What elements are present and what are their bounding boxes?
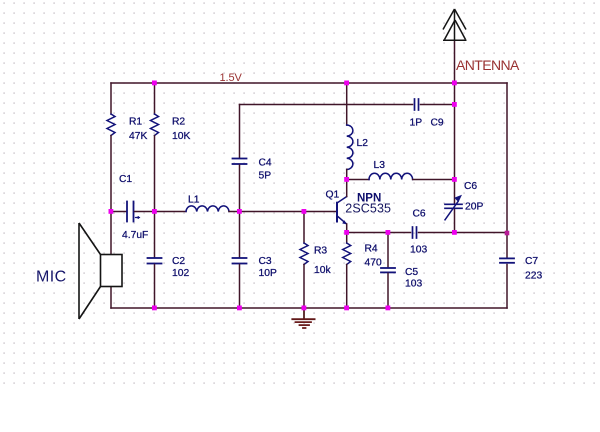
wire bottom rail <box>111 307 507 309</box>
resistor R3 <box>300 243 308 265</box>
wire emitter <box>346 224 348 233</box>
wire L2 top <box>346 83 348 125</box>
junction base / R3 top <box>302 209 307 214</box>
wire C9 right lead <box>421 104 455 106</box>
svg-text:103: 103 <box>410 245 427 256</box>
wire right vertical <box>506 83 508 233</box>
svg-text:Q1: Q1 <box>326 190 340 201</box>
capacitor C6 103 <box>412 227 414 238</box>
wire C1 to L1 <box>155 211 187 213</box>
junction L1 right / C4 bottom / C3 top <box>237 209 242 214</box>
ground <box>303 308 305 319</box>
svg-text:10k: 10k <box>314 265 331 276</box>
wire left vertical top (rail to R1) <box>110 83 112 114</box>
wire emitter row left <box>347 232 411 234</box>
junction R3 bottom / ground symbol <box>302 306 307 311</box>
wire C2 top lead <box>154 212 156 258</box>
wire R2 bottom <box>154 136 156 212</box>
wire C5 top lead <box>387 233 389 268</box>
junction C6 20P bottom / emitter row <box>452 230 457 235</box>
junction L2 bottom / L3 left / collector <box>344 177 349 182</box>
wire left vertical to MIC <box>110 212 112 255</box>
junction C9 right / antenna line <box>452 102 457 107</box>
junction antenna line / 1.5V rail <box>452 81 457 86</box>
junction C5 bottom / ground rail <box>386 306 391 311</box>
wire L1 right <box>229 211 304 213</box>
resistor R2 <box>151 114 159 136</box>
junction emitter / R4 top <box>344 230 349 235</box>
svg-text:C6: C6 <box>464 181 477 192</box>
wire C4 top corner <box>239 105 241 158</box>
svg-text:4.7uF: 4.7uF <box>122 230 148 241</box>
svg-text:L2: L2 <box>357 138 369 149</box>
wire C2 bottom lead <box>154 265 156 309</box>
wire C7 bottom lead <box>506 265 508 309</box>
capacitor C2 <box>148 257 162 259</box>
speaker MIC symbol <box>79 223 122 319</box>
wire emitter row right <box>419 232 508 234</box>
capacitor C4 <box>233 158 247 160</box>
svg-text:10K: 10K <box>172 131 190 142</box>
wire R4 top lead <box>346 233 348 244</box>
wire R3 top lead <box>303 212 305 244</box>
junction C1 left / R1 bottom / MIC top <box>109 209 114 214</box>
wire base lead <box>304 211 337 213</box>
capacitor C6 20P variable <box>445 203 462 205</box>
svg-text:103: 103 <box>405 279 422 290</box>
wire collector <box>346 180 348 197</box>
junction C3 bottom / ground rail <box>237 306 242 311</box>
wire L3 right lead <box>413 179 455 181</box>
wire mid row C4 to C9 <box>240 104 413 106</box>
wire R2 branch top <box>154 83 156 114</box>
svg-text:R3: R3 <box>314 246 327 257</box>
wire varcap top lead <box>454 180 456 204</box>
svg-text:L1: L1 <box>188 195 200 206</box>
wire antenna vertical <box>454 41 456 83</box>
junction C5 top <box>386 230 391 235</box>
antenna symbol <box>443 9 467 40</box>
wire MIC bottom to rail <box>110 287 112 309</box>
capacitor C5 <box>381 267 395 269</box>
wire C1 left lead <box>111 211 126 213</box>
inductor L3 <box>369 173 413 179</box>
capacitor C3 <box>233 257 247 259</box>
svg-text:C2: C2 <box>172 256 185 267</box>
svg-text:223: 223 <box>525 271 542 282</box>
svg-text:MIC: MIC <box>36 268 67 285</box>
svg-text:47K: 47K <box>129 131 147 142</box>
svg-text:C1: C1 <box>119 174 132 185</box>
svg-text:1.5V: 1.5V <box>220 72 243 84</box>
inductor L1 <box>186 206 229 212</box>
junction L2 top / 1.5V rail <box>344 81 349 86</box>
junction emitter row / right vertical <box>505 231 510 236</box>
wire R3 bottom lead <box>303 265 305 309</box>
capacitor C1 <box>126 202 128 222</box>
wire 1.5V top rail <box>111 82 507 84</box>
svg-text:C3: C3 <box>259 256 272 267</box>
wire C3 top lead <box>239 212 241 258</box>
svg-text:R1: R1 <box>129 117 142 128</box>
junction C1 right / R2 bottom / C2 top <box>152 209 157 214</box>
wire C3 bottom lead <box>239 265 241 309</box>
svg-text:R4: R4 <box>365 244 378 255</box>
junction L3 right / C6 20P top <box>452 177 457 182</box>
svg-text:C9: C9 <box>431 118 444 129</box>
inductor L2 <box>347 125 353 169</box>
svg-text:C5: C5 <box>405 267 418 278</box>
wire C1 right lead <box>135 211 155 213</box>
wire R4 bottom lead <box>346 265 348 309</box>
wire L3 left lead <box>347 179 369 181</box>
svg-text:R2: R2 <box>172 117 185 128</box>
wire C4 bottom lead <box>239 165 241 212</box>
svg-text:C7: C7 <box>525 256 538 267</box>
svg-text:10P: 10P <box>259 268 277 279</box>
capacitor C9 <box>414 99 416 110</box>
resistor R4 <box>343 243 351 265</box>
junction R4 bottom / ground rail <box>344 306 349 311</box>
wire C7 top lead <box>506 233 508 257</box>
svg-text:ANTENNA: ANTENNA <box>456 57 520 73</box>
resistor R1 <box>107 114 115 136</box>
svg-text:2SC535: 2SC535 <box>345 202 391 216</box>
junction R2 top / 1.5V rail <box>152 81 157 86</box>
wire varcap bottom lead <box>454 210 456 233</box>
wire R1 bottom <box>110 136 112 212</box>
transistor Q1 <box>336 203 338 222</box>
svg-text:1P: 1P <box>410 118 423 129</box>
svg-text:L3: L3 <box>374 160 386 171</box>
wire L2 bottom <box>346 169 348 179</box>
capacitor C7 <box>500 257 514 259</box>
svg-text:102: 102 <box>172 268 189 279</box>
svg-text:C4: C4 <box>259 158 272 169</box>
svg-text:20P: 20P <box>465 202 483 213</box>
svg-text:C6: C6 <box>413 209 426 220</box>
wire C5 bottom lead <box>387 273 389 308</box>
svg-text:470: 470 <box>365 258 382 269</box>
junction C2 bottom / ground rail <box>152 306 157 311</box>
svg-text:5P: 5P <box>259 171 272 182</box>
